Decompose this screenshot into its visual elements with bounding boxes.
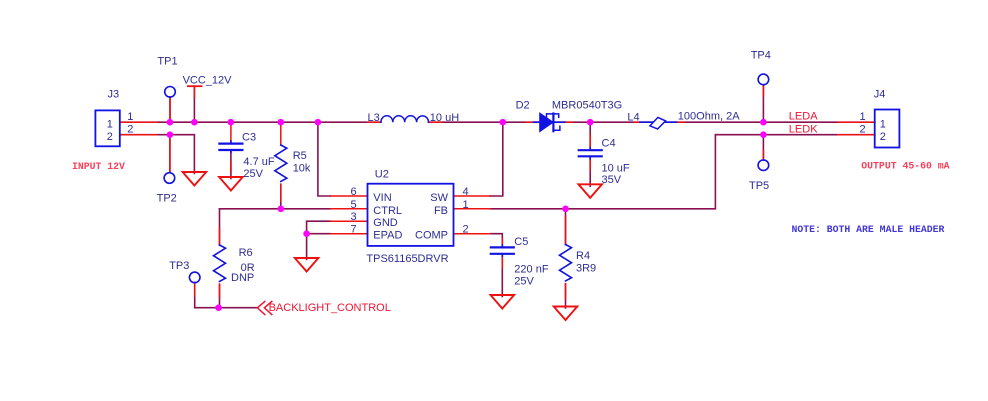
wire LEDK row	[715, 134, 874, 136]
svg-text:3: 3	[350, 211, 356, 223]
svg-text:COMP: COMP	[415, 230, 448, 242]
svg-text:NOTE: BOTH ARE MALE HEADER: NOTE: BOTH ARE MALE HEADER	[792, 224, 945, 235]
red stubs D2	[526, 121, 535, 123]
svg-text:10k: 10k	[293, 163, 311, 175]
connector J3	[95, 110, 119, 146]
wire J3 pin2 row (GND row B)	[120, 135, 194, 174]
node R5/CTRL row	[278, 206, 285, 213]
svg-text:J4: J4	[874, 88, 886, 100]
ground (C4)	[578, 184, 602, 198]
svg-text:2: 2	[107, 131, 113, 143]
svg-text:220 nF: 220 nF	[514, 264, 549, 276]
svg-text:1: 1	[860, 111, 866, 123]
svg-text:D2: D2	[516, 100, 530, 112]
wire C3 branch	[230, 122, 232, 142]
ground (U2 GND/EPAD)	[295, 258, 319, 272]
capacitor C4	[579, 148, 602, 159]
svg-text:LEDK: LEDK	[789, 124, 818, 136]
svg-text:MBR0540T3G: MBR0540T3G	[552, 100, 622, 112]
svg-text:4: 4	[462, 186, 468, 198]
red pin stubs J4	[838, 121, 875, 123]
svg-text:TP2: TP2	[157, 193, 177, 205]
op-amp U2 body	[368, 184, 454, 246]
node R5/bus	[278, 119, 285, 126]
svg-text:25V: 25V	[243, 168, 263, 180]
red pin stubs U2 left	[331, 195, 368, 197]
test point TP1	[165, 87, 176, 98]
svg-text:2: 2	[127, 123, 133, 135]
wire R6 branch down from CTRL row	[219, 209, 221, 245]
capacitor C5	[491, 245, 514, 257]
wire TP3 to BACKLIGHT_CONTROL node	[195, 282, 258, 307]
ferrite bead L4	[640, 117, 677, 129]
svg-text:EPAD: EPAD	[373, 230, 402, 242]
connector J4	[875, 110, 900, 148]
svg-text:35V: 35V	[602, 174, 622, 186]
diode D2 (schottky)	[534, 113, 565, 132]
ground (J3 pin2 / TP2 net)	[183, 172, 207, 186]
svg-text:LEDA: LEDA	[789, 111, 818, 123]
svg-text:1: 1	[127, 111, 133, 123]
svg-text:R4: R4	[576, 250, 590, 262]
wire TP2 drop	[169, 135, 171, 173]
wire FB net from U2 FB pin to LEDK row	[490, 135, 715, 209]
inductor L3	[381, 116, 429, 122]
node TP1/bus	[167, 119, 174, 126]
net label BACKLIGHT_CONTROL chevrons	[257, 301, 271, 314]
svg-text:VIN: VIN	[373, 192, 391, 204]
wire R5 stubs	[280, 122, 282, 145]
svg-text:DNP: DNP	[231, 272, 254, 284]
test point TP5	[758, 160, 769, 171]
red pin stubs J3	[120, 121, 157, 123]
ground (C5)	[491, 295, 515, 309]
svg-text:TP5: TP5	[749, 180, 769, 192]
svg-text:TP4: TP4	[751, 50, 771, 62]
svg-text:OUTPUT 45-60 mA: OUTPUT 45-60 mA	[861, 161, 949, 172]
red pin stubs U2 right	[454, 195, 491, 197]
svg-text:R6: R6	[239, 247, 253, 259]
svg-text:R5: R5	[293, 150, 307, 162]
svg-text:CTRL: CTRL	[373, 205, 402, 217]
red stubs L3	[368, 121, 381, 123]
svg-text:C3: C3	[242, 132, 256, 144]
wire TP1 drop	[169, 97, 171, 122]
svg-text:C4: C4	[602, 138, 616, 150]
red stubs L4	[634, 121, 640, 123]
svg-text:1: 1	[107, 118, 113, 130]
node TP4/bus	[760, 119, 767, 126]
svg-text:FB: FB	[434, 205, 448, 217]
node C4/bus	[587, 119, 594, 126]
wire COMP to C5	[490, 234, 502, 247]
wire SW branch from U2 pin 4 up to bus	[490, 122, 503, 196]
svg-text:2: 2	[462, 224, 468, 236]
resistor R5	[275, 145, 287, 181]
wire C4 branch	[589, 122, 591, 149]
svg-text:GND: GND	[373, 217, 398, 229]
svg-text:C5: C5	[514, 236, 528, 248]
wire CTRL row	[220, 208, 331, 210]
resistor R4	[560, 245, 572, 281]
test point TP2	[164, 173, 175, 184]
svg-text:2: 2	[880, 131, 886, 143]
svg-text:5: 5	[350, 199, 356, 211]
wire TP5 drop	[762, 135, 764, 160]
node C3/bus	[228, 119, 235, 126]
node TP2/row B	[167, 131, 174, 138]
node TP5/LEDK	[760, 131, 767, 138]
svg-text:VCC_12V: VCC_12V	[183, 74, 233, 86]
svg-text:INPUT 12V: INPUT 12V	[72, 161, 125, 172]
power symbol VCC_12V	[193, 86, 195, 122]
node EPAD/GND	[303, 230, 310, 237]
svg-text:L3: L3	[368, 112, 380, 124]
node R4/FB row	[562, 206, 569, 213]
svg-text:1: 1	[462, 199, 468, 211]
svg-text:100Ohm, 2A: 100Ohm, 2A	[678, 111, 740, 123]
wire GND/EPAD to ground	[307, 221, 331, 259]
resistor R6	[214, 245, 226, 281]
ground (C3)	[219, 177, 243, 191]
svg-text:4.7 uF: 4.7 uF	[243, 156, 274, 168]
svg-text:10 uH: 10 uH	[430, 112, 459, 124]
svg-text:6: 6	[350, 186, 356, 198]
node VIN branch	[315, 119, 322, 126]
wire TP4 drop	[762, 85, 764, 122]
svg-text:SW: SW	[430, 192, 448, 204]
svg-text:TP1: TP1	[157, 55, 177, 67]
wire VIN branch from bus to U2 pin 6	[318, 122, 331, 196]
svg-text:TP3: TP3	[169, 260, 189, 272]
svg-text:2: 2	[860, 123, 866, 135]
node SW/L3	[500, 119, 507, 126]
svg-text:3R9: 3R9	[576, 263, 596, 275]
ground (R4)	[554, 307, 578, 321]
svg-text:7: 7	[350, 224, 356, 236]
svg-text:L4: L4	[627, 112, 639, 124]
node VCC/bus	[191, 119, 198, 126]
svg-text:1: 1	[880, 118, 886, 130]
svg-text:BACKLIGHT_CONTROL: BACKLIGHT_CONTROL	[269, 302, 391, 314]
wire VCC_12V bus (row A)	[120, 121, 381, 123]
capacitor C3	[219, 141, 242, 153]
test point TP3	[189, 272, 200, 283]
node R6/TP3	[215, 304, 222, 311]
svg-text:10 uF: 10 uF	[602, 162, 630, 174]
svg-text:25V: 25V	[514, 276, 534, 288]
svg-text:U2: U2	[375, 169, 389, 181]
wire R4 branch from FB row	[565, 209, 567, 245]
test point TP4	[758, 74, 769, 85]
svg-text:J3: J3	[108, 88, 120, 100]
svg-text:TPS61165DRVR: TPS61165DRVR	[366, 253, 448, 265]
